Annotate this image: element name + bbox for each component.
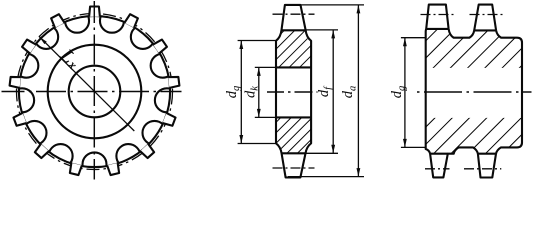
single-row sprocket cross-section (middle figure)	[267, 5, 318, 178]
outer plate circle	[19, 16, 170, 167]
dimension d_g (middle)	[238, 41, 276, 144]
duplex centerline	[416, 91, 532, 93]
hatching lower	[276, 118, 311, 153]
pitch circle (dash-dot)	[17, 14, 173, 170]
roller-seat gap arcs	[10, 9, 179, 177]
diagonal leader line	[39, 37, 134, 131]
hatching lower band	[426, 118, 522, 153]
dimension d_g (right)	[401, 38, 426, 148]
label Lx (left figure)	[59, 48, 81, 70]
section profile outline	[276, 5, 311, 178]
dimension d_a (middle)	[288, 5, 364, 177]
hub circle	[48, 45, 142, 139]
middle section centerline	[267, 91, 318, 93]
duplex sprocket cross-section (right figure)	[416, 5, 532, 178]
sprocket teeth	[89, 7, 100, 17]
bore top line	[276, 66, 311, 68]
dimension d_f (middle)	[303, 30, 338, 153]
duplex root lines top	[426, 28, 449, 30]
hatching upper band	[426, 29, 522, 68]
horizontal centerline	[2, 91, 182, 93]
duplex pitch lines top	[421, 14, 454, 16]
vertical centerline	[93, 1, 95, 180]
leader arrowhead	[39, 37, 47, 45]
hatching upper	[276, 31, 311, 67]
tooth root line top	[282, 29, 306, 31]
tooth root line bottom	[282, 152, 306, 154]
bore bottom line	[276, 116, 311, 118]
sprocket front view (left figure)	[2, 1, 182, 180]
dimension d_k (middle)	[255, 67, 276, 117]
duplex root lines bottom	[430, 153, 448, 155]
bore circle	[69, 66, 121, 118]
duplex pitch lines bottom	[425, 168, 450, 170]
pitch line bottom	[273, 167, 315, 169]
duplex profile outline	[426, 5, 522, 178]
pitch line top	[273, 13, 315, 15]
